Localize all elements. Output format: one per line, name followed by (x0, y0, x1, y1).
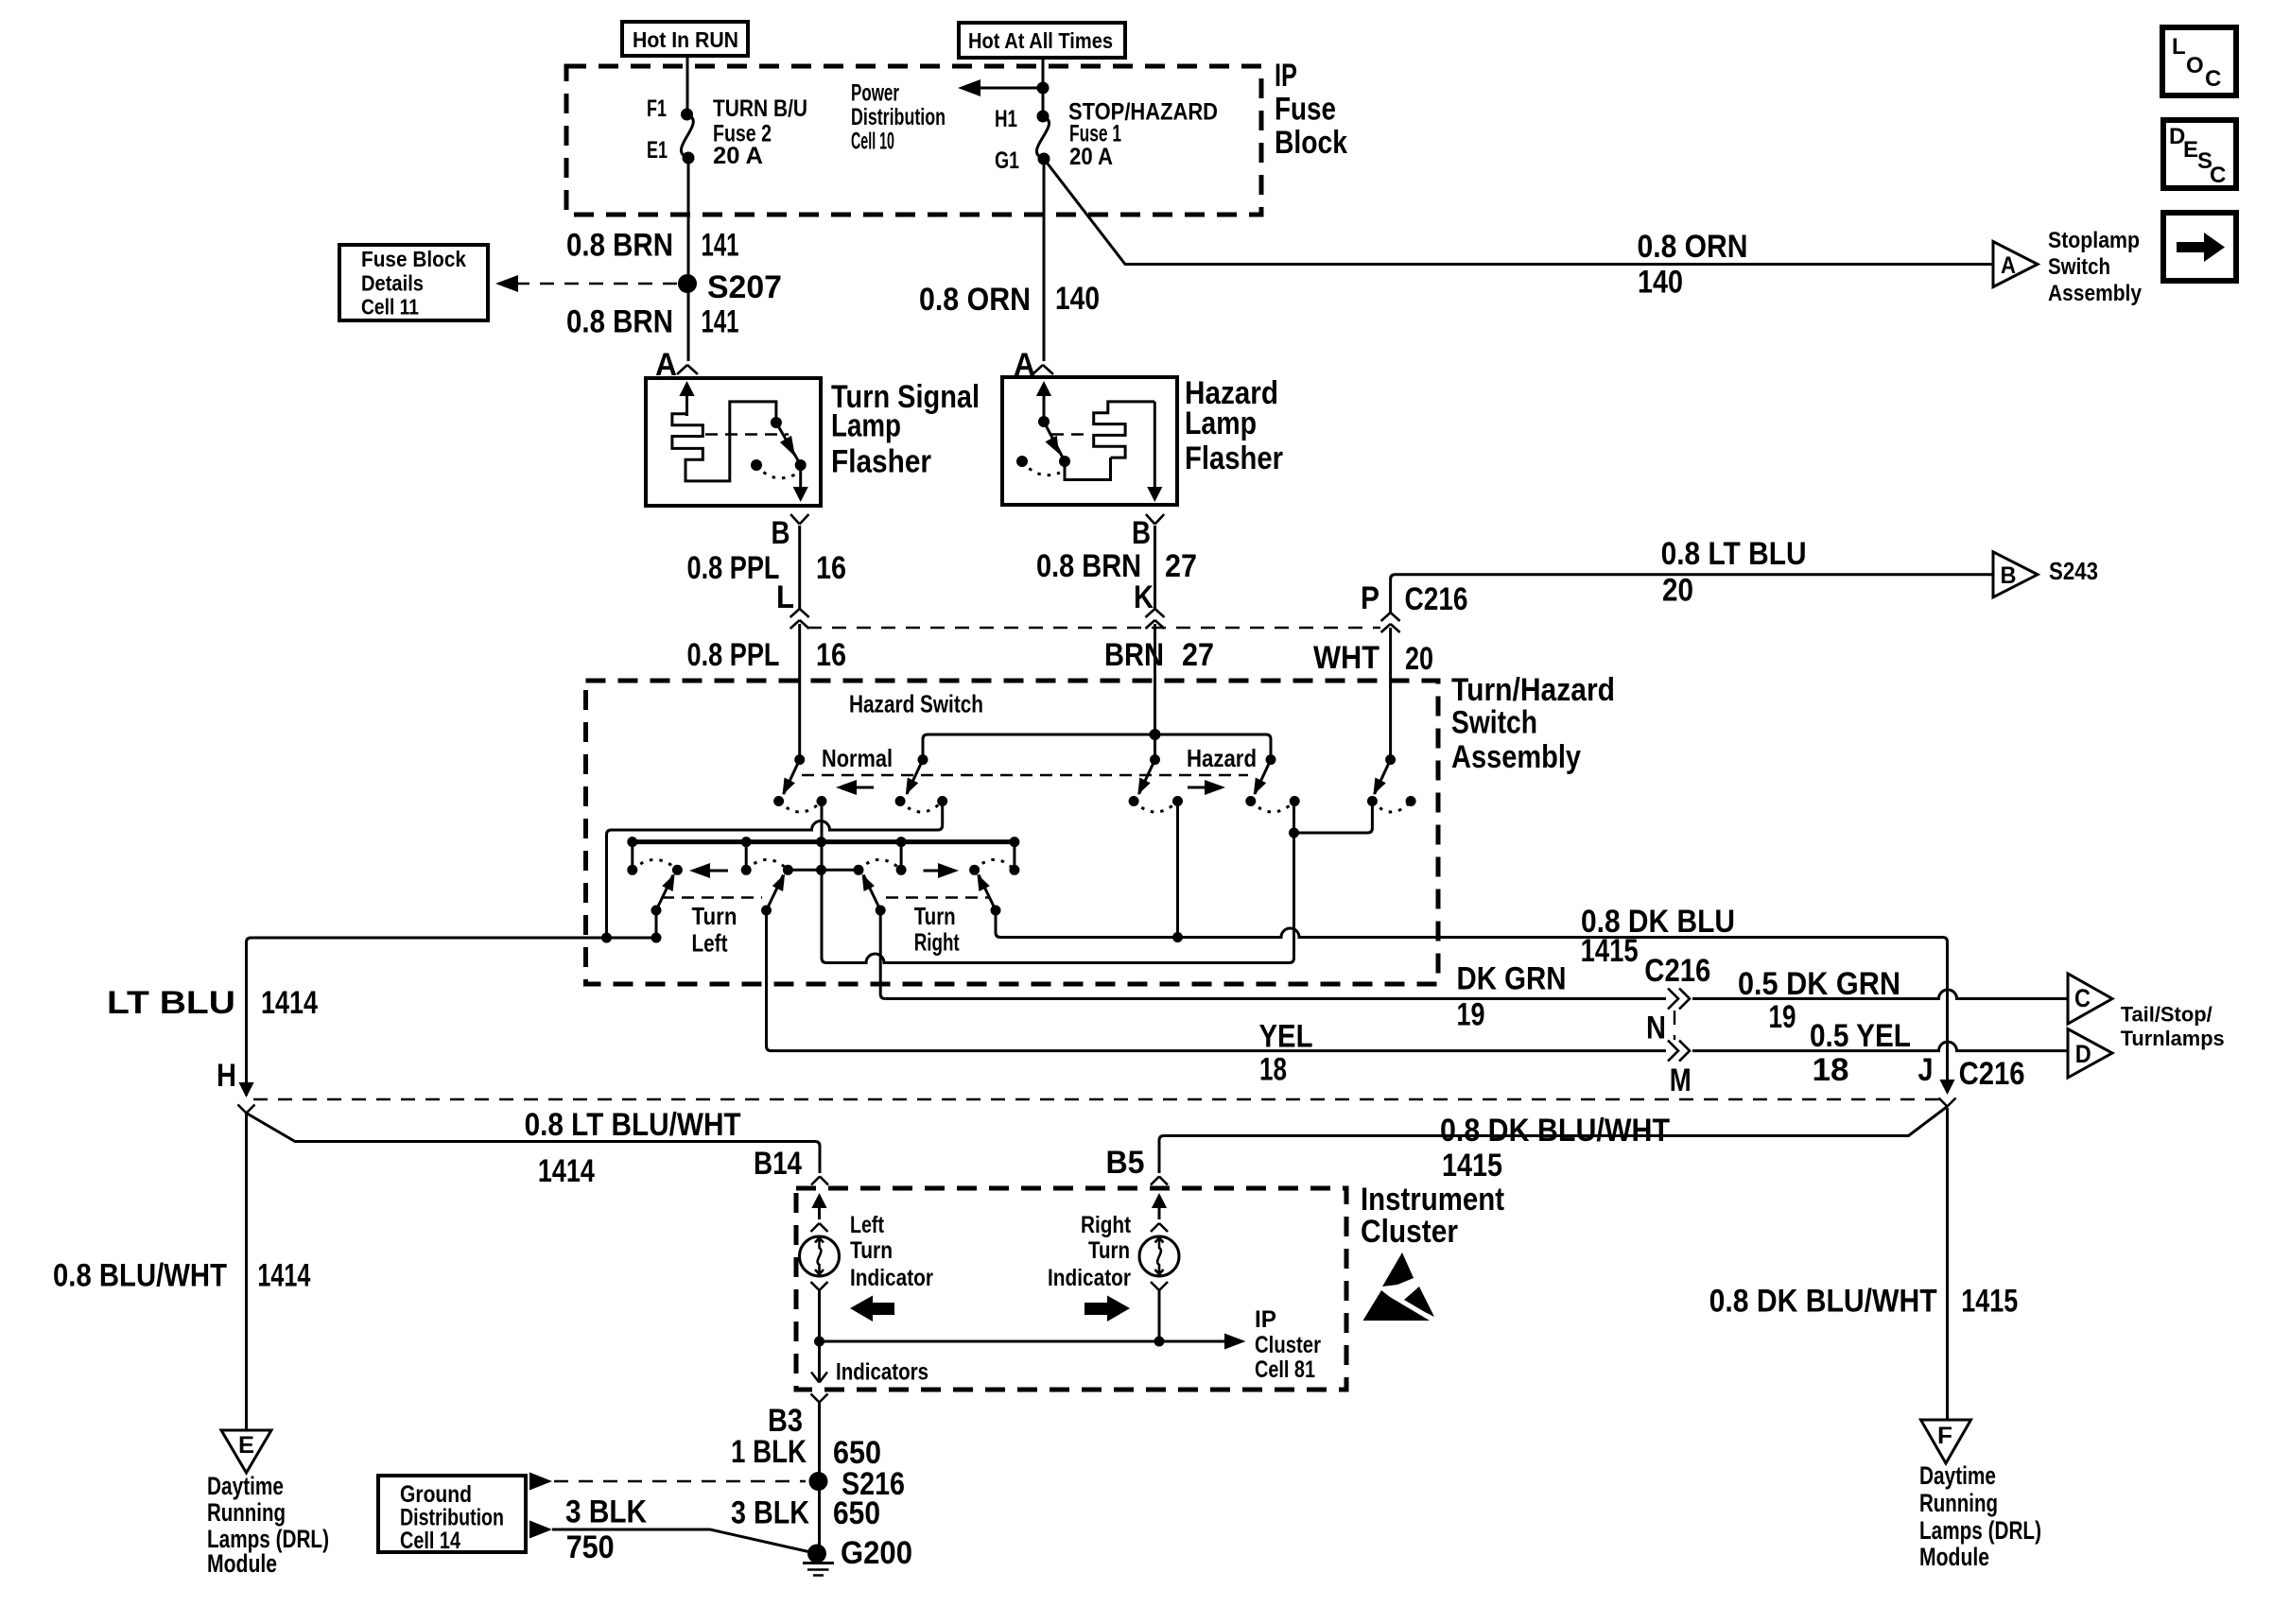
turn flasher internal: outlet arrow (793, 465, 808, 502)
pin B of hazard flasher (1132, 514, 1164, 551)
svg-text:1 BLK: 1 BLK (731, 1434, 807, 1470)
dashed reference arrow from S207 to Fuse Block Details (495, 275, 677, 292)
legend box with right arrow (2163, 213, 2236, 281)
svg-text:1414: 1414 (257, 1258, 310, 1294)
svg-text:Instrument: Instrument (1361, 1182, 1504, 1218)
hazard switch pole 2 (Normal) (895, 754, 948, 812)
svg-text:0.8 ORN: 0.8 ORN (919, 282, 1031, 318)
wire: 1 BLK 650 from B3 to S216 and G200 (818, 1403, 821, 1549)
pin A of turn signal flasher (655, 347, 698, 383)
ESD sensitivity symbol (1363, 1253, 1435, 1321)
svg-text:E1: E1 (647, 137, 668, 164)
normal direction arrow (left) (836, 780, 874, 795)
svg-text:Fuse: Fuse (1275, 92, 1336, 128)
wire: 0.5 YEL 18 to connector D (hump over DRL wire) (1692, 1042, 2068, 1051)
connector H of C216 (down arrow) (217, 1058, 254, 1097)
svg-text:1414: 1414 (538, 1153, 595, 1189)
wire: left lamp to indicators bus (811, 1282, 828, 1382)
wire: 0.8 PPL 16 from connector L into switch assembly (798, 624, 801, 760)
turn switch pole 2 (YEL 18) (761, 874, 785, 916)
wire: BRN 27 from connector K into switch assembly (1154, 624, 1156, 760)
wire: 3 BLK 750 / 650 to G200 (529, 1520, 817, 1553)
svg-text:Block: Block (1275, 125, 1347, 161)
svg-text:H: H (217, 1058, 236, 1094)
wire: pole2 contact to LT BLU output (with crossover hump) (607, 802, 943, 939)
turn switch center contact link (788, 869, 859, 872)
wire: LT BLU 1414 to connector H (247, 933, 662, 1097)
junction to power distribution (1037, 82, 1050, 95)
svg-text:O: O (2186, 53, 2204, 78)
svg-text:IP: IP (1275, 58, 1297, 94)
ground G200 (803, 1535, 912, 1576)
wire label 0.8 DK BLU 1415 (1581, 904, 1735, 969)
svg-text:16: 16 (816, 637, 846, 673)
turn left direction arrow (689, 863, 728, 878)
pin B of turn signal flasher (772, 514, 809, 551)
svg-text:Details: Details (361, 271, 424, 296)
wire: Hot In RUN feed down to fuse F1 (686, 56, 689, 114)
svg-text:0.8 BRN: 0.8 BRN (566, 304, 673, 340)
svg-text:L: L (2172, 34, 2186, 60)
svg-text:Assembly: Assembly (2048, 281, 2143, 306)
svg-text:Flasher: Flasher (831, 444, 931, 480)
svg-text:Cell 10: Cell 10 (851, 129, 894, 155)
label: Left Turn Indicator (850, 1212, 933, 1291)
wire: Hot At All Times feed down to fuse H1 (1042, 58, 1045, 116)
svg-text:20: 20 (1662, 573, 1693, 609)
svg-text:Switch: Switch (1451, 705, 1537, 741)
svg-text:141: 141 (702, 304, 739, 340)
right indicator arrow symbol (1084, 1296, 1130, 1322)
svg-text:Running: Running (1919, 1489, 1998, 1517)
off-page connector C (2068, 974, 2112, 1024)
wire label 0.5 YEL 18 (1810, 1018, 1911, 1088)
wire label 0.8 ORN 140 (column) (919, 281, 1100, 318)
fuse H1/G1 terminals: STOP/HAZARD Fuse 1 20 A (995, 99, 1218, 175)
wire label YEL 18 (1259, 1019, 1313, 1088)
hazard switch gang dashed line (802, 774, 1248, 776)
IP Fuse Block dashed enclosure (566, 66, 1261, 215)
turn switch pole 1 (left lamps) (651, 874, 675, 916)
svg-text:E: E (238, 1432, 254, 1459)
svg-text:K: K (1134, 579, 1154, 615)
svg-text:WHT: WHT (1313, 640, 1379, 676)
svg-text:Stoplamp: Stoplamp (2048, 228, 2140, 253)
svg-text:H1: H1 (995, 106, 1017, 132)
wire: 0.8 DK BLU 1415 output (with crossover hump) (1000, 928, 1948, 1083)
svg-text:Switch: Switch (2048, 254, 2110, 280)
wire labels 3 BLK 650 750 (565, 1494, 880, 1565)
label: Daytime Running Lamps (DRL) Module (right) (1919, 1461, 2041, 1571)
hazard flasher internal: outlet arrow (1147, 402, 1162, 502)
wire: 0.8 DK BLU/WHT 1415 from J to cluster B5 (1159, 1107, 1948, 1174)
svg-text:G1: G1 (995, 147, 1019, 174)
legend box LOC (2162, 27, 2236, 95)
svg-text:650: 650 (833, 1495, 880, 1531)
svg-text:DK GRN: DK GRN (1457, 961, 1567, 997)
svg-text:Cluster: Cluster (1255, 1332, 1321, 1358)
wire: feed link from BRN 27 to hazard poles 2 and 4 (923, 729, 1271, 760)
wire label 0.8 LT BLU/WHT 1414 (525, 1107, 741, 1189)
svg-text:B: B (772, 515, 790, 551)
wire: turn pole 2 leg to YEL 18 (767, 910, 772, 1051)
svg-text:Turn: Turn (692, 902, 737, 930)
svg-text:Running: Running (207, 1498, 286, 1527)
svg-text:IP: IP (1255, 1306, 1276, 1333)
wire: 0.8 ORN 140 from G1 to stoplamp switch assembly (1044, 159, 1993, 265)
svg-text:B14: B14 (754, 1146, 802, 1182)
svg-text:F1: F1 (647, 95, 667, 122)
svg-text:Hot In RUN: Hot In RUN (633, 27, 738, 52)
hazard switch pole 4 (Hazard) (1245, 754, 1299, 812)
label: Daytime Running Lamps (DRL) Module (left) (207, 1472, 329, 1578)
svg-text:Cell 14: Cell 14 (400, 1528, 460, 1554)
wire label 0.8 DK BLU/WHT 1415 (vertical run) (1709, 1284, 2019, 1320)
splice S216 (809, 1466, 906, 1502)
C216 connector boundary dashed line (253, 1098, 1939, 1100)
wire: indicators bus to IP cluster arrow (820, 1334, 1246, 1350)
svg-text:C: C (2074, 984, 2091, 1012)
svg-text:27: 27 (1182, 637, 1214, 673)
svg-text:20: 20 (1405, 641, 1433, 677)
svg-text:J: J (1918, 1052, 1934, 1088)
label: Turn Right (914, 902, 960, 957)
wire: 0.8 DK BLU/WHT 1415 down to DRL module F (1946, 1108, 1949, 1420)
label: Tail/Stop/Turnlamps (2121, 1002, 2225, 1050)
svg-text:Cell 81: Cell 81 (1255, 1356, 1315, 1383)
hazard switch pole 5 (from WHT 20) (1367, 754, 1416, 812)
turn switch pole 3 (DK GRN 19) (862, 874, 886, 916)
wire: YEL 18 to C216 pin M (772, 1049, 1667, 1052)
wire label 0.8 ORN 140 (stoplamp run) (1638, 229, 1748, 301)
off-page connector F (1921, 1420, 1971, 1463)
svg-text:16: 16 (816, 550, 846, 586)
right turn indicator input arrow (B5) (1151, 1193, 1168, 1232)
svg-text:750: 750 (566, 1529, 615, 1565)
wire label BRN 27 (inside) (1104, 637, 1214, 673)
svg-text:P: P (1361, 580, 1379, 616)
wire label 0.8 BLU/WHT 1414 (53, 1258, 310, 1294)
arrow to Power Distribution Cell 10 (851, 79, 1043, 155)
reference box: Fuse Block Details Cell 11 (339, 245, 488, 320)
svg-text:D: D (2075, 1040, 2091, 1068)
flasher: Hazard Lamp Flasher (1002, 375, 1283, 505)
Turn/Hazard Switch Assembly dashed enclosure (586, 681, 1439, 984)
wire: turn pole 1 leg to LT BLU 1414 (655, 910, 658, 938)
svg-text:C: C (2210, 163, 2226, 188)
left indicator arrow symbol (850, 1296, 894, 1322)
svg-text:0.8 LT BLU: 0.8 LT BLU (1661, 536, 1807, 572)
svg-text:0.8 LT BLU/WHT: 0.8 LT BLU/WHT (525, 1107, 741, 1143)
indicators output arrow (811, 1359, 928, 1386)
splice S207 (678, 269, 782, 305)
svg-text:C216: C216 (1405, 581, 1468, 617)
svg-text:L: L (776, 579, 794, 615)
svg-text:Cell 11: Cell 11 (361, 295, 419, 320)
connector J mating half chevron (1939, 1098, 1956, 1107)
wire: turn pole 4 leg to DK BLU 1415 (996, 910, 1000, 938)
svg-text:19: 19 (1457, 997, 1485, 1033)
svg-text:B5: B5 (1106, 1145, 1145, 1181)
off-page connector E (221, 1430, 271, 1473)
svg-text:0.8 PPL: 0.8 PPL (687, 550, 780, 586)
svg-text:0.8 DK BLU/WHT: 0.8 DK BLU/WHT (1709, 1284, 1937, 1320)
svg-text:18: 18 (1259, 1052, 1287, 1088)
svg-text:Module: Module (207, 1549, 277, 1578)
svg-text:Lamp: Lamp (831, 408, 901, 444)
off-page connector D (2068, 1029, 2112, 1079)
connector boundary dashed line (L/K/P) (807, 627, 1380, 629)
svg-text:E: E (2183, 137, 2198, 163)
dashed ground reference to S216 (529, 1473, 806, 1491)
lamp: Right Turn Indicator (1139, 1236, 1179, 1276)
power label box: Hot In RUN (622, 22, 748, 56)
pin B14 of instrument cluster (754, 1146, 828, 1185)
hazard flasher internal: dashed link (1051, 433, 1089, 435)
svg-text:G200: G200 (841, 1535, 912, 1571)
inline connector pin K (1134, 579, 1165, 629)
label: IP Cluster Cell 81 (1255, 1306, 1321, 1383)
svg-text:A: A (2001, 252, 2016, 279)
svg-text:1414: 1414 (261, 985, 318, 1021)
svg-text:Turn: Turn (1088, 1237, 1130, 1264)
turn flasher internal: inlet arrow (679, 381, 694, 416)
wire: DK GRN 19 to C216 pin N (885, 997, 1666, 1000)
wire label 0.5 DK GRN 19 (1738, 966, 1900, 1035)
wire label 0.8 BRN 141 (above S207) (566, 228, 739, 264)
svg-text:0.8 BRN: 0.8 BRN (566, 228, 673, 264)
svg-text:0.5 YEL: 0.5 YEL (1810, 1018, 1911, 1054)
svg-text:0.8 ORN: 0.8 ORN (1638, 229, 1748, 265)
svg-text:Left: Left (850, 1212, 885, 1238)
svg-text:1415: 1415 (1442, 1148, 1502, 1183)
svg-text:Cluster: Cluster (1361, 1214, 1458, 1250)
svg-text:Daytime: Daytime (1919, 1461, 1996, 1490)
svg-text:Indicator: Indicator (1048, 1265, 1131, 1291)
component title: Instrument Cluster (1361, 1182, 1504, 1250)
svg-text:Daytime: Daytime (207, 1472, 284, 1500)
wire label WHT 20 (1313, 640, 1433, 677)
wire label 0.8 DK BLU/WHT 1415 (1440, 1113, 1670, 1183)
svg-text:140: 140 (1055, 281, 1100, 317)
left turn indicator input arrow (B14) (811, 1193, 828, 1232)
turn switch contact row dots (627, 865, 1019, 875)
hazard direction arrow (right) (1188, 780, 1225, 795)
wire: pole3 contact down to DK BLU output (1176, 802, 1179, 938)
legend box DESC (2163, 120, 2236, 188)
wire label 0.8 BRN 141 (below S207) (566, 304, 739, 340)
turn flasher internal: switch arm and contacts (751, 417, 807, 478)
svg-text:Turnlamps: Turnlamps (2121, 1027, 2225, 1050)
connector C216 pin M (1668, 1041, 1692, 1098)
wire: turn pole 3 leg to DK GRN 19 (880, 910, 885, 999)
wire: 0.8 BLU/WHT 1414 down to DRL module E (245, 1114, 248, 1430)
wire label 0.8 BRN 27 (1036, 548, 1197, 584)
svg-text:M: M (1670, 1063, 1692, 1098)
svg-text:C216: C216 (1644, 953, 1710, 989)
svg-text:Turn/Hazard: Turn/Hazard (1451, 672, 1615, 708)
svg-text:Hazard Switch: Hazard Switch (849, 690, 983, 718)
svg-text:BRN: BRN (1104, 637, 1164, 673)
connector H mating half chevron (238, 1105, 255, 1114)
wire label 0.8 PPL 16 (inside) (687, 637, 847, 673)
svg-text:Indicators: Indicators (836, 1359, 928, 1386)
hazard flasher internal: heater element (1065, 402, 1154, 480)
inline connector pin L (776, 579, 809, 629)
svg-text:19: 19 (1769, 999, 1796, 1035)
connector C216 pin N (1644, 953, 1710, 1046)
lamp: Left Turn Indicator (800, 1236, 840, 1276)
component title: IP Fuse Block (1275, 58, 1347, 161)
svg-text:Left: Left (692, 929, 728, 958)
svg-text:Fuse Block: Fuse Block (361, 247, 466, 271)
svg-text:Power: Power (851, 80, 899, 107)
svg-text:Right: Right (1081, 1212, 1132, 1238)
pin B5 of instrument cluster (1106, 1145, 1169, 1185)
inline connector pin P of C216 (1361, 580, 1468, 632)
power label box: Hot At All Times (959, 23, 1125, 58)
label: Right Turn Indicator (1048, 1212, 1132, 1291)
svg-text:F: F (1937, 1423, 1952, 1449)
turn switch pole 4 (DK BLU 1415) (977, 874, 1000, 916)
turn switch contact arcs (633, 859, 1015, 870)
svg-text:27: 27 (1165, 548, 1197, 584)
svg-text:Lamp: Lamp (1185, 406, 1257, 441)
connector J of C216 (down arrow) (1918, 1052, 2025, 1095)
svg-text:0.8 PPL: 0.8 PPL (687, 637, 780, 673)
turn switch fixed contact stubs (633, 842, 1015, 871)
svg-text:20 A: 20 A (1069, 144, 1113, 170)
svg-text:3 BLK: 3 BLK (731, 1494, 809, 1530)
svg-text:B: B (2001, 562, 2017, 589)
hazard switch pole 3 (Hazard, from BRN 27) (1129, 754, 1183, 812)
svg-text:Module: Module (1919, 1543, 1989, 1571)
wire label 1 BLK 650 (731, 1434, 881, 1471)
wire: 0.8 ORN 140 from G1 down to hazard flasher (1043, 159, 1046, 361)
wire: 0.8 LT BLU/WHT 1414 from H to cluster B14 (247, 1114, 821, 1174)
turn flasher internal: dashed link (705, 433, 789, 435)
wire: center contact bus link to pole4 contact (with crossover humps) (822, 802, 1294, 963)
hazard switch pole 1 (Normal, from PPL 16) (773, 754, 826, 812)
pin A of hazard flasher (1014, 347, 1053, 383)
svg-text:0.8 DK BLU/WHT: 0.8 DK BLU/WHT (1440, 1113, 1670, 1149)
turn right direction arrow (924, 863, 960, 878)
svg-text:Normal: Normal (822, 744, 893, 772)
svg-text:140: 140 (1638, 265, 1683, 301)
svg-text:B: B (1132, 515, 1151, 551)
wire: WHT 20 from switch assembly up to connector P (1389, 628, 1392, 760)
hazard flasher internal: switch arm and contacts (1016, 416, 1070, 475)
svg-text:1415: 1415 (1581, 933, 1639, 969)
svg-text:S243: S243 (2049, 557, 2098, 585)
turn flasher internal: heater element (672, 402, 776, 481)
wire label DK GRN 19 (1457, 961, 1567, 1033)
fuse F1/E1 terminals: TURN B/U Fuse 2 20 A (647, 95, 807, 169)
label: Turn Left (692, 902, 737, 958)
wire label 0.8 LT BLU 20 (1661, 536, 1807, 609)
svg-text:Indicator: Indicator (850, 1265, 933, 1291)
svg-text:20 A: 20 A (713, 143, 763, 169)
off-page connector A: Stoplamp Switch Assembly (1993, 228, 2143, 306)
svg-text:0.8 BLU/WHT: 0.8 BLU/WHT (53, 1258, 227, 1294)
svg-text:Hazard: Hazard (1187, 744, 1257, 772)
wire: right lamp down to indicators bus (1151, 1282, 1168, 1347)
svg-text:Assembly: Assembly (1451, 739, 1581, 775)
wire label 0.8 PPL 16 (687, 550, 847, 586)
svg-text:Tail/Stop/: Tail/Stop/ (2121, 1002, 2212, 1026)
svg-text:YEL: YEL (1259, 1019, 1313, 1055)
turn switch gang dashed lines (662, 896, 989, 898)
svg-text:C216: C216 (1959, 1056, 2025, 1092)
svg-text:0.5 DK GRN: 0.5 DK GRN (1738, 966, 1900, 1002)
off-page connector B: S243 (1993, 552, 2098, 597)
svg-text:Turn: Turn (850, 1237, 893, 1264)
junction: pole5 contact link (1289, 802, 1372, 838)
svg-text:Lamps (DRL): Lamps (DRL) (1919, 1516, 2041, 1545)
svg-text:Flasher: Flasher (1185, 441, 1283, 476)
svg-text:0.8 BRN: 0.8 BRN (1036, 548, 1141, 584)
svg-text:18: 18 (1813, 1052, 1849, 1088)
hazard flasher internal: inlet arrow (1036, 381, 1051, 418)
svg-text:1415: 1415 (1961, 1284, 2018, 1320)
svg-text:Turn: Turn (914, 902, 956, 930)
turn switch bus bar (627, 837, 1019, 847)
pin B3 chevron (768, 1394, 828, 1440)
svg-text:C: C (2205, 66, 2221, 92)
wire: 0.8 LT BLU 20 from P to S243 (1391, 575, 1993, 613)
wire label LT BLU 1414 (107, 985, 318, 1021)
svg-text:3 BLK: 3 BLK (565, 1494, 647, 1529)
reference box: Ground Distribution Cell 14 (378, 1476, 526, 1554)
svg-text:Right: Right (914, 928, 960, 957)
wire: 0.8 PPL 16 from flasher B to connector L (798, 526, 801, 609)
Instrument Cluster dashed enclosure (796, 1188, 1346, 1390)
svg-text:N: N (1646, 1011, 1666, 1046)
component title: Turn/Hazard Switch Assembly (1451, 672, 1615, 775)
svg-text:S207: S207 (707, 269, 782, 305)
svg-text:LT BLU: LT BLU (107, 985, 235, 1021)
svg-text:Hot At All Times: Hot At All Times (968, 28, 1113, 53)
wire: 0.8 BRN 141 from fuse E1 down to flasher, through S207 (687, 158, 690, 361)
svg-text:TURN B/U: TURN B/U (713, 95, 807, 122)
svg-text:141: 141 (702, 228, 739, 264)
wire: 0.5 DK GRN 19 to connector C (hump over DRL wire) (1692, 990, 2068, 999)
flasher: Turn Signal Lamp Flasher (646, 378, 980, 506)
wire: 0.8 BRN 27 from flasher B to connector K (1154, 526, 1156, 609)
svg-text:Distribution: Distribution (851, 104, 946, 130)
